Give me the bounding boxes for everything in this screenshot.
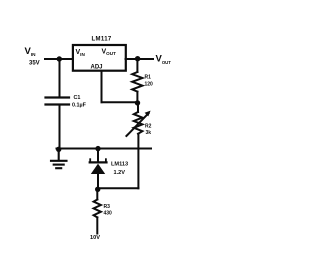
wire output node down to R1 — [136, 59, 138, 72]
svg-text:10V: 10V — [90, 235, 100, 241]
svg-text:ADJ: ADJ — [91, 65, 103, 71]
svg-text:LM113: LM113 — [111, 162, 128, 168]
wire zener anode down to node — [97, 174, 99, 189]
wire ground rail — [57, 148, 152, 150]
capacitor C1 — [46, 98, 70, 105]
wire R2 bottom down crossing ground rail — [137, 134, 139, 189]
svg-text:C1: C1 — [74, 95, 81, 101]
wire ADJ horizontal to R1-R2 node — [102, 101, 138, 103]
svg-text:3k: 3k — [146, 130, 152, 136]
node output junction — [135, 56, 140, 61]
node ground junction — [56, 147, 61, 152]
svg-text:VIN: VIN — [76, 49, 86, 57]
wire C1 to ground rail — [59, 106, 61, 149]
regulator U1 LM117 — [73, 45, 126, 71]
node ADJ junction — [135, 100, 140, 105]
wire rail down to zener — [97, 149, 99, 162]
resistor R3 — [94, 200, 101, 218]
svg-text:430: 430 — [104, 211, 113, 217]
wire node to R2 — [137, 103, 139, 112]
node input junction — [57, 56, 62, 61]
svg-text:1.2V: 1.2V — [114, 170, 126, 176]
node diode cathode junction — [95, 146, 100, 151]
svg-text:VIN: VIN — [25, 46, 37, 57]
resistor R1 — [132, 72, 142, 92]
svg-text:120: 120 — [145, 82, 154, 88]
svg-text:R3: R3 — [104, 204, 111, 210]
wire node to R3 — [96, 190, 98, 200]
diode D1 LM113 zener — [90, 159, 107, 174]
svg-text:LM117: LM117 — [92, 36, 112, 42]
svg-text:VOUT: VOUT — [156, 54, 172, 66]
wire ADJ pin down — [101, 72, 103, 103]
wire input from VIN label to regulator — [45, 58, 73, 60]
svg-text:0.1µF: 0.1µF — [72, 103, 87, 109]
wire output from regulator — [126, 58, 154, 60]
node anode junction — [95, 187, 100, 192]
wire bottom return to diode anode — [98, 187, 139, 189]
ground — [51, 150, 67, 168]
resistor R2 variable — [126, 111, 150, 136]
wire input node down to C1 — [59, 59, 61, 97]
svg-text:R1: R1 — [145, 75, 152, 81]
wire R1 to ADJ node — [136, 92, 138, 103]
svg-text:VOUT: VOUT — [102, 49, 117, 57]
wire R3 to -10V — [96, 217, 98, 233]
svg-text:R2: R2 — [145, 124, 152, 130]
svg-text:35V: 35V — [29, 61, 40, 67]
